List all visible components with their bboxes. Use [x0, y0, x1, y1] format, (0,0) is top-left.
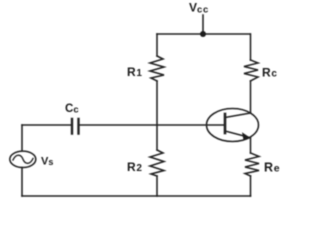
wire R1-R2 middle [156, 81, 158, 150]
transistor Q1 collector diagonal [225, 113, 251, 118]
wire Rc top [250, 34, 252, 60]
wire base node horizontal [79, 124, 226, 126]
svg-text:R1: R1 [127, 65, 142, 79]
wire emitter [250, 138, 252, 153]
node Vcc junction [200, 31, 206, 37]
svg-text:Cc: Cc [65, 103, 79, 116]
transistor Q1 emitter diagonal [225, 131, 248, 137]
resistor R1 [150, 56, 164, 81]
wire left branch bottom [21, 168, 23, 197]
capacitor Cc plates [72, 119, 79, 134]
wire capacitor left [22, 124, 72, 126]
svg-text:Vcc: Vcc [189, 1, 209, 16]
wire bottom rail [22, 195, 251, 197]
wire left branch top [21, 125, 23, 151]
source Vs sine [13, 155, 33, 163]
resistor Rc [244, 60, 258, 81]
resistor Re [245, 153, 259, 176]
wire top rail [157, 33, 250, 35]
wire R2 bottom [156, 176, 158, 196]
transistor Q1 body [207, 109, 259, 142]
power Vcc stub [202, 15, 204, 34]
wire Re bottom [250, 176, 252, 196]
transistor Q1 base bar [224, 114, 227, 133]
transistor Q1 emitter arrow [242, 132, 251, 140]
resistor R2 [150, 150, 164, 176]
svg-text:R2: R2 [127, 160, 142, 174]
svg-text:Re: Re [264, 161, 280, 175]
wire R1 top [156, 34, 158, 56]
source Vs body [10, 151, 36, 167]
wire collector [250, 81, 252, 113]
svg-text:Rc: Rc [262, 66, 277, 80]
svg-text:Vs: Vs [41, 156, 53, 168]
